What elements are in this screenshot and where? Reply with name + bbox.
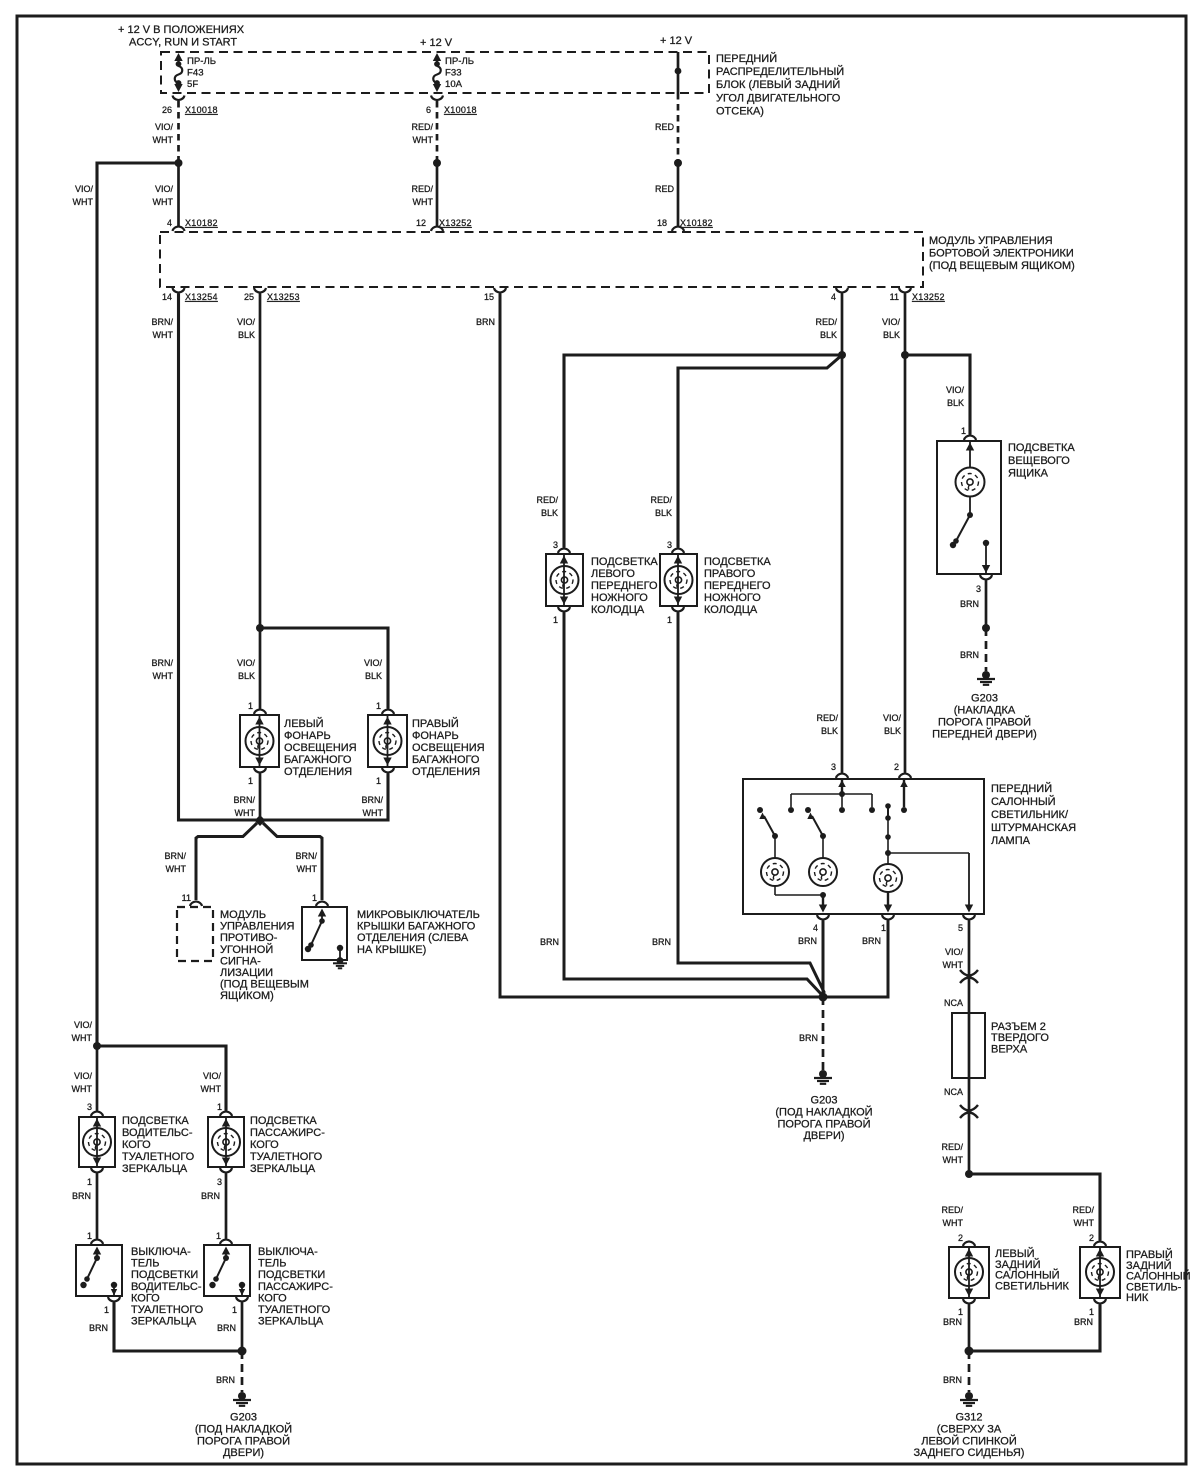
wire BRN passenger lamp to switch bbox=[225, 1174, 228, 1239]
junction RED/WHT splice bbox=[433, 159, 441, 167]
svg-text:УГОЛ ДВИГАТЕЛЬНОГО: УГОЛ ДВИГАТЕЛЬНОГО bbox=[716, 92, 841, 104]
svg-text:WHT: WHT bbox=[72, 1084, 93, 1094]
junction VIO/WHT splice (mirrors) bbox=[93, 1042, 101, 1050]
svg-text:ОТДЕЛЕНИЯ (СЛЕВА: ОТДЕЛЕНИЯ (СЛЕВА bbox=[357, 932, 469, 944]
svg-text:НИК: НИК bbox=[1126, 1292, 1149, 1304]
wire BRN dashed to ground G203 (mirrors) bbox=[241, 1351, 244, 1392]
wire right trunk lamp to splice bbox=[260, 774, 388, 821]
connector pin 1 (left trunk lamp) bbox=[248, 701, 266, 714]
wire BRN dashed to ground G203 bbox=[985, 628, 988, 671]
svg-text:WHT: WHT bbox=[153, 671, 174, 681]
label: glovebox light bbox=[1008, 442, 1075, 480]
svg-text:+ 12 V: + 12 V bbox=[660, 35, 693, 47]
wire RED to module pin 18 bbox=[677, 163, 680, 227]
wire RED/WHT to module pin 12 bbox=[436, 163, 439, 227]
svg-text:ФОНАРЬ: ФОНАРЬ bbox=[284, 730, 331, 742]
svg-text:3: 3 bbox=[217, 1177, 222, 1187]
driver vanity light switch bbox=[76, 1245, 122, 1296]
wire BRN right footwell lamp to splice bbox=[678, 613, 825, 994]
svg-text:11: 11 bbox=[182, 893, 191, 903]
svg-text:12: 12 bbox=[416, 218, 426, 228]
wire VIO/BLK branch to right trunk lamp bbox=[260, 628, 388, 709]
svg-text:WHT: WHT bbox=[363, 808, 384, 818]
svg-text:1: 1 bbox=[312, 893, 317, 903]
svg-text:WHT: WHT bbox=[943, 1218, 964, 1228]
svg-text:ACCY, RUN И START: ACCY, RUN И START bbox=[129, 37, 237, 49]
svg-text:ФОНАРЬ: ФОНАРЬ bbox=[412, 730, 459, 742]
wire +12V red through distribution box bbox=[677, 52, 680, 93]
connector pin 1 below left trunk lamp bbox=[248, 768, 266, 786]
connector pin 1 (right trunk lamp) bbox=[376, 701, 394, 714]
svg-text:BRN: BRN bbox=[960, 599, 979, 609]
svg-text:КОГО: КОГО bbox=[122, 1139, 151, 1151]
ground G203 (right front door sill) bbox=[977, 671, 995, 685]
svg-text:ПЕРЕДНЕГО: ПЕРЕДНЕГО bbox=[704, 580, 771, 592]
svg-text:VIO/: VIO/ bbox=[75, 184, 94, 194]
svg-text:3: 3 bbox=[553, 540, 558, 550]
svg-text:BLK: BLK bbox=[947, 398, 964, 408]
svg-text:СВЕТИЛЬНИК/: СВЕТИЛЬНИК/ bbox=[991, 809, 1069, 821]
svg-text:BLK: BLK bbox=[820, 330, 837, 340]
wire RED/BLK branch to right footwell lamp bbox=[678, 355, 842, 548]
svg-text:3: 3 bbox=[976, 584, 981, 594]
body electronics control module (dashed box) bbox=[160, 232, 923, 287]
svg-text:ПОДСВЕТКИ: ПОДСВЕТКИ bbox=[131, 1269, 198, 1281]
label: anti-theft module bbox=[220, 909, 309, 1002]
svg-text:КОГО: КОГО bbox=[258, 1292, 287, 1304]
svg-text:БАГАЖНОГО: БАГАЖНОГО bbox=[412, 754, 480, 766]
wire BRN dashed to ground G203 (interior) bbox=[822, 997, 825, 1070]
label: driver vanity mirror light bbox=[122, 1115, 195, 1175]
svg-text:СВЕТИЛЬНИК: СВЕТИЛЬНИК bbox=[995, 1280, 1070, 1292]
svg-text:ТУАЛЕТНОГО: ТУАЛЕТНОГО bbox=[131, 1304, 204, 1316]
svg-text:ТЕЛЬ: ТЕЛЬ bbox=[258, 1258, 287, 1270]
connector pin 3 (driver vanity lamp) bbox=[87, 1102, 103, 1116]
svg-text:X13252: X13252 bbox=[912, 292, 945, 302]
wire VIO/WHT saloon pin5 down bbox=[968, 921, 971, 1175]
label: body electronics module bbox=[929, 235, 1075, 272]
junction VIO/BLK split to both trunk lamps bbox=[256, 624, 264, 632]
connector pin 14 X13254 bbox=[162, 288, 218, 302]
right trunk light lamp bbox=[368, 715, 407, 767]
connector pin 5 below saloon light bbox=[958, 915, 975, 933]
svg-text:МИКРОВЫКЛЮЧАТЕЛЬ: МИКРОВЫКЛЮЧАТЕЛЬ bbox=[357, 909, 480, 921]
label: right rear saloon light bbox=[1126, 1248, 1191, 1304]
svg-text:+ 12 V В ПОЛОЖЕНИЯХ: + 12 V В ПОЛОЖЕНИЯХ bbox=[118, 24, 245, 36]
svg-text:ПОРОГА ПРАВОЙ: ПОРОГА ПРАВОЙ bbox=[197, 1434, 290, 1447]
wire BRN left rear lamp to splice bbox=[968, 1305, 971, 1352]
svg-text:WHT: WHT bbox=[413, 197, 434, 207]
svg-text:VIO/: VIO/ bbox=[74, 1020, 93, 1030]
svg-text:BRN/: BRN/ bbox=[361, 795, 383, 805]
wire BRN left footwell lamp to splice bbox=[564, 613, 822, 996]
svg-text:F43: F43 bbox=[187, 68, 204, 79]
wire BRN/WHT to anti-theft module bbox=[196, 823, 257, 900]
wire RED/WHT branch to right rear lamp bbox=[969, 1174, 1100, 1241]
svg-text:BLK: BLK bbox=[883, 330, 900, 340]
connector pin 1 (passenger vanity switch) bbox=[216, 1231, 232, 1244]
connector pin 4 bbox=[831, 288, 848, 302]
connector pin 3 below passenger vanity lamp bbox=[217, 1168, 232, 1187]
svg-text:1: 1 bbox=[217, 1102, 222, 1112]
svg-text:1: 1 bbox=[667, 615, 672, 625]
svg-text:BRN: BRN bbox=[960, 650, 979, 660]
wire BRN saloon pin4 to ground splice bbox=[822, 921, 825, 998]
label: driver vanity switch bbox=[131, 1246, 204, 1328]
svg-text:БЛОК (ЛЕВЫЙ ЗАДНИЙ: БЛОК (ЛЕВЫЙ ЗАДНИЙ bbox=[716, 78, 840, 91]
svg-text:ТУАЛЕТНОГО: ТУАЛЕТНОГО bbox=[258, 1304, 331, 1316]
svg-text:BRN/: BRN/ bbox=[151, 658, 173, 668]
ground G312 (behind rear seat back) bbox=[960, 1392, 978, 1406]
svg-text:26: 26 bbox=[162, 105, 172, 115]
svg-text:VIO/: VIO/ bbox=[155, 184, 174, 194]
connector pin 4 below saloon light bbox=[813, 915, 829, 933]
wire BRN right rear lamp to splice bbox=[969, 1305, 1100, 1352]
svg-text:BLK: BLK bbox=[821, 726, 838, 736]
left rear saloon light bbox=[949, 1247, 989, 1298]
svg-text:NCA: NCA bbox=[944, 998, 963, 1008]
svg-text:ПРАВОГО: ПРАВОГО bbox=[704, 568, 756, 580]
svg-text:VIO/: VIO/ bbox=[237, 658, 256, 668]
label: ground G312 bbox=[914, 1412, 1025, 1460]
svg-text:ПОДСВЕТКИ: ПОДСВЕТКИ bbox=[258, 1269, 325, 1281]
connector pin 1 below driver switch bbox=[104, 1297, 120, 1315]
svg-text:ЗЕРКАЛЬЦА: ЗЕРКАЛЬЦА bbox=[131, 1316, 197, 1328]
connector pin 25 X13253 bbox=[244, 288, 300, 302]
svg-text:VIO/: VIO/ bbox=[946, 385, 965, 395]
svg-text:1: 1 bbox=[376, 701, 381, 711]
connector pin 1 below right footwell lamp bbox=[667, 607, 684, 625]
svg-text:ОСВЕЩЕНИЯ: ОСВЕЩЕНИЯ bbox=[284, 742, 357, 754]
svg-text:КОГО: КОГО bbox=[250, 1139, 279, 1151]
svg-text:WHT: WHT bbox=[153, 330, 174, 340]
svg-text:G203: G203 bbox=[230, 1412, 257, 1424]
svg-text:(НАКЛАДКА: (НАКЛАДКА bbox=[954, 705, 1016, 717]
passenger vanity light switch bbox=[204, 1245, 250, 1296]
svg-text:ВОДИТЕЛЬС-: ВОДИТЕЛЬС- bbox=[122, 1127, 193, 1139]
svg-text:ШТУРМАНСКАЯ: ШТУРМАНСКАЯ bbox=[991, 822, 1076, 834]
label: left trunk light bbox=[284, 717, 357, 778]
svg-text:ТУАЛЕТНОГО: ТУАЛЕТНОГО bbox=[122, 1151, 195, 1163]
svg-text:3: 3 bbox=[831, 762, 836, 772]
svg-text:10A: 10A bbox=[445, 79, 463, 90]
svg-text:BRN: BRN bbox=[799, 1033, 818, 1043]
ground (trunk microswitch) bbox=[333, 957, 347, 968]
connector pin 2 (right rear saloon light) bbox=[1089, 1233, 1106, 1246]
svg-text:+ 12 V: + 12 V bbox=[420, 37, 453, 49]
svg-text:15: 15 bbox=[484, 292, 494, 302]
connector pin 1 (driver vanity switch) bbox=[87, 1231, 103, 1244]
svg-text:BRN: BRN bbox=[862, 936, 881, 946]
connector pin 4 X10182 bbox=[167, 218, 218, 231]
wire VIO/WHT branch to mirror circuit (long left drop) bbox=[97, 163, 179, 1046]
svg-text:VIO/: VIO/ bbox=[237, 317, 256, 327]
wire BRN/WHT from module pin 14 down to trunk splice bbox=[179, 294, 261, 821]
svg-text:БАГАЖНОГО: БАГАЖНОГО bbox=[284, 754, 352, 766]
svg-text:11: 11 bbox=[890, 292, 899, 302]
wire RED dashed bbox=[677, 93, 680, 160]
connector pin 2 (left rear saloon light) bbox=[958, 1233, 975, 1246]
svg-text:WHT: WHT bbox=[297, 864, 318, 874]
svg-text:WHT: WHT bbox=[235, 808, 256, 818]
wire BRN saloon pin1 to ground splice bbox=[823, 921, 888, 998]
label: ground G203 mirrors bbox=[195, 1412, 292, 1460]
svg-text:6: 6 bbox=[426, 105, 431, 115]
svg-text:ПАССАЖИРС-: ПАССАЖИРС- bbox=[258, 1281, 333, 1293]
svg-text:BRN: BRN bbox=[540, 937, 559, 947]
svg-text:RED/: RED/ bbox=[816, 713, 838, 723]
svg-text:ПРАВЫЙ: ПРАВЫЙ bbox=[412, 717, 459, 730]
svg-text:BRN: BRN bbox=[89, 1323, 108, 1333]
wire BRN driver switch to splice bbox=[114, 1303, 242, 1352]
fuse F33 10A bbox=[433, 53, 441, 92]
svg-text:BRN/: BRN/ bbox=[233, 795, 255, 805]
svg-text:BRN: BRN bbox=[798, 936, 817, 946]
svg-text:X13253: X13253 bbox=[267, 292, 300, 302]
wire RED/WHT dashed from fuse F33 bbox=[436, 101, 439, 160]
label: left rear saloon light bbox=[995, 1247, 1070, 1292]
wire BRN dashed to ground G312 bbox=[968, 1351, 971, 1392]
front power distribution box (dashed) bbox=[161, 52, 709, 93]
svg-text:RED/: RED/ bbox=[536, 495, 558, 505]
svg-text:1: 1 bbox=[248, 701, 253, 711]
wire BRN glovebox to splice bbox=[985, 581, 988, 629]
label: fuse F43 5F bbox=[187, 56, 216, 90]
svg-text:ВЕЩЕВОГО: ВЕЩЕВОГО bbox=[1008, 455, 1070, 467]
label: hardtop connector 2 bbox=[991, 1021, 1049, 1056]
svg-text:BRN: BRN bbox=[72, 1191, 91, 1201]
svg-text:ВЕРХА: ВЕРХА bbox=[991, 1044, 1028, 1056]
svg-text:2: 2 bbox=[1089, 1233, 1094, 1243]
connector pin 1 below left rear lamp bbox=[958, 1299, 975, 1317]
svg-text:ЛЕВОЙ СПИНКОЙ: ЛЕВОЙ СПИНКОЙ bbox=[921, 1434, 1017, 1447]
wire VIO/BLK from module pin 11 bbox=[904, 294, 907, 773]
svg-text:ПОДСВЕТКА: ПОДСВЕТКА bbox=[1008, 442, 1075, 454]
svg-text:1: 1 bbox=[232, 1305, 237, 1315]
junction BRN splice (vanity mirrors) bbox=[238, 1347, 247, 1356]
junction VIO/WHT splice bbox=[175, 159, 183, 167]
svg-text:BRN/: BRN/ bbox=[164, 851, 186, 861]
connector pin 12 X13252 bbox=[416, 218, 472, 231]
svg-text:ПОРОГА ПРАВОЙ: ПОРОГА ПРАВОЙ bbox=[777, 1117, 870, 1130]
wire BRN/WHT to trunk microswitch bbox=[263, 823, 322, 900]
wire BRN driver lamp to switch bbox=[96, 1174, 99, 1239]
wire VIO/WHT dashed from fuse F43 bbox=[177, 101, 180, 160]
connector pin 3 (right footwell lamp) bbox=[667, 540, 684, 553]
svg-text:ПАССАЖИРС-: ПАССАЖИРС- bbox=[250, 1127, 325, 1139]
svg-text:ЗЕРКАЛЬЦА: ЗЕРКАЛЬЦА bbox=[250, 1163, 316, 1175]
svg-text:WHT: WHT bbox=[73, 197, 94, 207]
svg-text:WHT: WHT bbox=[943, 960, 964, 970]
label: trunk lid microswitch bbox=[357, 909, 480, 956]
svg-text:1: 1 bbox=[87, 1231, 92, 1241]
svg-text:BRN/: BRN/ bbox=[295, 851, 317, 861]
svg-text:ВОДИТЕЛЬС-: ВОДИТЕЛЬС- bbox=[131, 1281, 202, 1293]
svg-text:КОЛОДЦА: КОЛОДЦА bbox=[591, 604, 645, 616]
wire BRN passenger switch to splice bbox=[241, 1303, 244, 1352]
svg-text:4: 4 bbox=[831, 292, 836, 302]
svg-text:4: 4 bbox=[813, 923, 818, 933]
wire left trunk lamp to splice bbox=[259, 774, 262, 821]
svg-text:(ПОД ВЕЩЕВЫМ ЯЩИКОМ): (ПОД ВЕЩЕВЫМ ЯЩИКОМ) bbox=[929, 260, 1075, 272]
svg-text:RED/: RED/ bbox=[815, 317, 837, 327]
connector pin 1 below driver vanity lamp bbox=[87, 1168, 103, 1187]
svg-text:BRN: BRN bbox=[1074, 1317, 1093, 1327]
svg-text:RED/: RED/ bbox=[411, 184, 433, 194]
junction VIO/BLK splice bbox=[901, 351, 909, 359]
connector pin 1 below saloon light bbox=[881, 915, 894, 933]
svg-text:WHT: WHT bbox=[72, 1033, 93, 1043]
svg-text:X10182: X10182 bbox=[680, 218, 713, 228]
connector pin 26 X10018 bbox=[162, 96, 218, 116]
svg-text:G312: G312 bbox=[956, 1412, 983, 1424]
svg-text:ПОДСВЕТКА: ПОДСВЕТКА bbox=[591, 556, 658, 568]
junction RED/BLK splice bbox=[838, 351, 846, 359]
svg-text:RED/: RED/ bbox=[650, 495, 672, 505]
connector pin 18 X10182 bbox=[657, 218, 713, 231]
svg-text:14: 14 bbox=[162, 292, 172, 302]
svg-text:BRN: BRN bbox=[943, 1375, 962, 1385]
svg-text:BLK: BLK bbox=[238, 330, 255, 340]
svg-text:BLK: BLK bbox=[238, 671, 255, 681]
svg-text:ТУАЛЕТНОГО: ТУАЛЕТНОГО bbox=[250, 1151, 323, 1163]
svg-text:ПОДСВЕТКА: ПОДСВЕТКА bbox=[704, 556, 771, 568]
svg-text:RED/: RED/ bbox=[941, 1142, 963, 1152]
glovebox light with switch bbox=[937, 441, 1001, 574]
anti-theft alarm control module (dashed box) bbox=[177, 907, 213, 961]
svg-text:КРЫШКИ БАГАЖНОГО: КРЫШКИ БАГАЖНОГО bbox=[357, 921, 476, 933]
svg-text:1: 1 bbox=[1089, 1307, 1094, 1317]
connector pin 1 (trunk lid microswitch) bbox=[312, 893, 328, 906]
svg-text:BRN: BRN bbox=[217, 1323, 236, 1333]
left footwell courtesy lamp bbox=[546, 554, 583, 606]
connector pin 3 (front saloon light) bbox=[831, 762, 848, 778]
svg-text:1: 1 bbox=[961, 426, 966, 436]
svg-text:RED/: RED/ bbox=[1072, 1205, 1094, 1215]
svg-text:5F: 5F bbox=[187, 79, 198, 90]
svg-text:ПОДСВЕТКА: ПОДСВЕТКА bbox=[122, 1115, 189, 1127]
svg-text:РАСПРЕДЕЛИТЕЛЬНЫЙ: РАСПРЕДЕЛИТЕЛЬНЫЙ bbox=[716, 65, 844, 78]
label: left footwell lamp bbox=[591, 556, 658, 616]
svg-text:G203: G203 bbox=[971, 693, 998, 705]
connector pin 1 below passenger switch bbox=[232, 1297, 248, 1315]
svg-text:BRN: BRN bbox=[652, 937, 671, 947]
svg-text:УПРАВЛЕНИЯ: УПРАВЛЕНИЯ bbox=[220, 921, 294, 933]
junction interior lights ground splice bbox=[819, 993, 828, 1002]
svg-text:ВЫКЛЮЧА-: ВЫКЛЮЧА- bbox=[258, 1246, 318, 1258]
label: fuse F33 10A bbox=[445, 56, 474, 90]
svg-text:ПР-ЛЬ: ПР-ЛЬ bbox=[187, 56, 216, 67]
junction BRN splice (glovebox) bbox=[982, 624, 990, 632]
svg-text:ПОРОГА ПРАВОЙ: ПОРОГА ПРАВОЙ bbox=[938, 716, 1031, 729]
svg-text:ЛЕВОГО: ЛЕВОГО bbox=[591, 568, 635, 580]
junction BRN splice (rear lights) bbox=[965, 1347, 974, 1356]
ground G203 (under right door sill) bbox=[233, 1392, 251, 1406]
svg-text:ОТСЕКА): ОТСЕКА) bbox=[716, 105, 764, 117]
svg-text:1: 1 bbox=[248, 776, 253, 786]
svg-text:BRN: BRN bbox=[216, 1375, 235, 1385]
label: right footwell lamp bbox=[704, 556, 771, 616]
power label +12V ACCY RUN START bbox=[118, 24, 245, 49]
svg-text:ЗЕРКАЛЬЦА: ЗЕРКАЛЬЦА bbox=[122, 1163, 188, 1175]
inline connector (lower) bbox=[960, 1105, 978, 1118]
svg-text:BRN: BRN bbox=[943, 1317, 962, 1327]
svg-text:X13254: X13254 bbox=[185, 292, 218, 302]
svg-text:НА КРЫШКЕ): НА КРЫШКЕ) bbox=[357, 944, 426, 956]
svg-text:25: 25 bbox=[244, 292, 254, 302]
connector pin 3 (left footwell lamp) bbox=[553, 540, 570, 553]
svg-text:ЯЩИКОМ): ЯЩИКОМ) bbox=[220, 990, 274, 1002]
svg-text:1: 1 bbox=[958, 1307, 963, 1317]
svg-text:РАЗЪЕМ 2: РАЗЪЕМ 2 bbox=[991, 1021, 1046, 1033]
svg-text:1: 1 bbox=[881, 923, 886, 933]
svg-text:WHT: WHT bbox=[413, 135, 434, 145]
label: front saloon light / map lamp bbox=[991, 782, 1076, 847]
svg-text:VIO/: VIO/ bbox=[155, 122, 174, 132]
svg-text:RED: RED bbox=[655, 184, 675, 194]
junction RED/WHT splice (rear lights) bbox=[965, 1170, 973, 1178]
svg-text:BLK: BLK bbox=[365, 671, 382, 681]
connector pin 1 (passenger vanity lamp) bbox=[217, 1102, 232, 1116]
svg-text:(ПОД НАКЛАДКОЙ: (ПОД НАКЛАДКОЙ bbox=[195, 1422, 292, 1435]
svg-text:КОГО: КОГО bbox=[131, 1292, 160, 1304]
svg-text:ВЫКЛЮЧА-: ВЫКЛЮЧА- bbox=[131, 1246, 191, 1258]
connector pin 1 below right rear lamp bbox=[1089, 1299, 1106, 1317]
svg-text:СИГНА-: СИГНА- bbox=[220, 955, 261, 967]
svg-text:ЛИЗАЦИИ: ЛИЗАЦИИ bbox=[220, 967, 273, 979]
svg-text:F33: F33 bbox=[445, 68, 462, 79]
svg-text:18: 18 bbox=[657, 218, 667, 228]
connector pin 1 below right trunk lamp bbox=[376, 768, 394, 786]
svg-text:1: 1 bbox=[104, 1305, 109, 1315]
svg-text:G203: G203 bbox=[811, 1095, 838, 1107]
svg-text:1: 1 bbox=[87, 1177, 92, 1187]
svg-text:1: 1 bbox=[376, 776, 381, 786]
svg-text:BLK: BLK bbox=[655, 508, 672, 518]
svg-text:1: 1 bbox=[553, 615, 558, 625]
wire VIO/WHT to driver mirror lamp bbox=[96, 1046, 99, 1111]
svg-text:САЛОННЫЙ: САЛОННЫЙ bbox=[991, 795, 1056, 808]
svg-text:3: 3 bbox=[667, 540, 672, 550]
svg-text:ПР-ЛЬ: ПР-ЛЬ bbox=[445, 56, 474, 67]
svg-text:ПЕРЕДНЕГО: ПЕРЕДНЕГО bbox=[591, 580, 658, 592]
wire RED/BLK from module pin 4 bbox=[841, 294, 844, 773]
wire RED/BLK branch to left footwell lamp bbox=[564, 355, 842, 548]
svg-text:ПЕРЕДНИЙ: ПЕРЕДНИЙ bbox=[716, 52, 777, 65]
label: right trunk light bbox=[412, 717, 485, 778]
svg-text:WHT: WHT bbox=[943, 1155, 964, 1165]
svg-text:ТВЕРДОГО: ТВЕРДОГО bbox=[991, 1032, 1049, 1044]
svg-text:ОСВЕЩЕНИЯ: ОСВЕЩЕНИЯ bbox=[412, 742, 485, 754]
svg-text:BLK: BLK bbox=[541, 508, 558, 518]
wire VIO/WHT to module pin 4 bbox=[177, 163, 180, 227]
wire VIO/BLK branch to glovebox lamp bbox=[905, 355, 970, 435]
svg-text:ПОДСВЕТКА: ПОДСВЕТКА bbox=[250, 1115, 317, 1127]
svg-text:2: 2 bbox=[894, 762, 899, 772]
svg-text:VIO/: VIO/ bbox=[882, 317, 901, 327]
connector pin 3 below glovebox lamp bbox=[976, 575, 992, 594]
svg-text:ЗЕРКАЛЬЦА: ЗЕРКАЛЬЦА bbox=[258, 1316, 324, 1328]
svg-text:X10182: X10182 bbox=[185, 218, 218, 228]
svg-text:ЛЕВЫЙ: ЛЕВЫЙ bbox=[284, 717, 324, 730]
svg-text:BRN/: BRN/ bbox=[151, 317, 173, 327]
connector pin 11 (anti-theft module) bbox=[182, 893, 202, 906]
svg-text:WHT: WHT bbox=[201, 1084, 222, 1094]
svg-text:ТЕЛЬ: ТЕЛЬ bbox=[131, 1258, 160, 1270]
svg-text:VIO/: VIO/ bbox=[945, 947, 964, 957]
svg-text:VIO/: VIO/ bbox=[364, 658, 383, 668]
svg-text:(СВЕРХУ ЗА: (СВЕРХУ ЗА bbox=[937, 1423, 1002, 1435]
